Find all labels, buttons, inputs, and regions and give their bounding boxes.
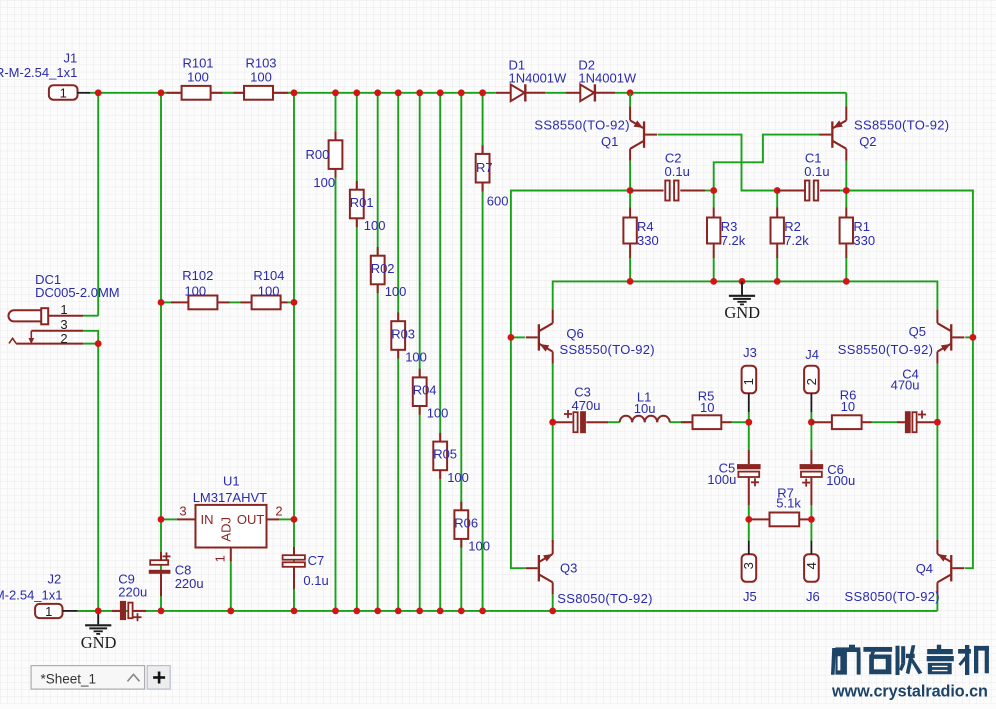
wire R102-R104	[230, 301, 241, 303]
svg-text:Q5: Q5	[909, 324, 926, 339]
node top bus x161	[158, 89, 165, 96]
svg-text:100: 100	[313, 175, 335, 190]
wire Q1 collector stub	[629, 161, 631, 191]
svg-text:3: 3	[741, 562, 756, 569]
node bottom bus x419	[416, 608, 423, 615]
node bottom bus x356	[353, 608, 360, 615]
node bottom bus x482	[479, 608, 486, 615]
wire mid GND bus	[553, 281, 938, 309]
node bottom bus x161	[158, 608, 165, 615]
svg-text:100: 100	[187, 70, 209, 85]
ground J2	[97, 611, 99, 625]
svg-text:4: 4	[804, 562, 819, 569]
resistor R01	[356, 181, 358, 190]
capacitor C5	[748, 450, 750, 464]
wire Q1 base to C1/R2 node	[658, 135, 777, 191]
connector J2	[35, 604, 62, 618]
node bottom bus x440	[437, 608, 444, 615]
node top bus x482	[479, 89, 486, 96]
svg-text:Q2: Q2	[859, 134, 876, 149]
svg-text:100: 100	[405, 350, 427, 365]
capacitor C7	[293, 547, 295, 555]
wire R5 left lead green	[681, 421, 693, 423]
svg-text:ADJ: ADJ	[218, 517, 233, 542]
wire U1 pin3 green	[161, 518, 177, 520]
DC1 pin3 lead	[31, 330, 83, 332]
wire DC1 pin2 net	[83, 343, 98, 345]
svg-text:GND: GND	[81, 633, 117, 652]
node top bus x419	[416, 89, 423, 96]
svg-text:330: 330	[853, 233, 875, 248]
node top bus x398	[395, 89, 402, 96]
resistor R3	[713, 208, 715, 218]
resistor R06	[460, 502, 462, 511]
wire Q6 collector to C3 node	[552, 364, 554, 423]
resistor R4	[629, 208, 631, 218]
node bottom bus x230	[227, 608, 234, 615]
connector J5	[742, 554, 757, 582]
svg-text:10: 10	[841, 399, 855, 414]
node D2 out	[627, 89, 634, 96]
wire Q1 emitter stub	[629, 93, 631, 107]
capacitor C1	[777, 190, 805, 192]
wire Q4 base net	[846, 191, 973, 569]
capacitor C3	[553, 421, 573, 423]
watermark char yin	[927, 645, 954, 675]
wire J2 stub green	[77, 610, 98, 612]
svg-text:www.crystalradio.cn: www.crystalradio.cn	[831, 683, 988, 701]
svg-text:220u: 220u	[175, 576, 204, 591]
node J4	[808, 419, 815, 426]
wire Q2 collector stub	[845, 161, 847, 191]
svg-text:470u: 470u	[891, 378, 920, 393]
svg-text:R05: R05	[433, 447, 457, 462]
resistor R103	[234, 92, 245, 94]
node Q1 collector	[627, 187, 634, 194]
svg-text:*Sheet_1: *Sheet_1	[41, 671, 97, 686]
wire R7 node down to J6	[810, 519, 812, 540]
wire R1 top stub	[845, 191, 847, 208]
wire DC1 sleeve to GND rail	[83, 331, 98, 611]
wire U1 adj green	[230, 561, 232, 611]
node bottom bus x377	[374, 608, 381, 615]
capacitor C2	[630, 190, 663, 192]
resistor R7b	[749, 518, 770, 520]
node J3	[745, 419, 752, 426]
resistor R1	[845, 208, 847, 218]
svg-text:1: 1	[45, 604, 52, 619]
op-amp U1 body	[196, 505, 267, 548]
sheet tab bar	[31, 666, 145, 690]
svg-text:600: 600	[487, 194, 509, 209]
resistor R102	[171, 301, 189, 303]
svg-text:J3: J3	[743, 345, 757, 360]
svg-text:100: 100	[258, 283, 280, 298]
wire rail x482	[482, 93, 484, 611]
inductor L1	[620, 416, 633, 422]
wire R6 to C4 green	[872, 421, 898, 423]
wire L1 to R5	[670, 421, 681, 423]
connector J1	[49, 85, 78, 100]
watermark char shou	[896, 645, 923, 675]
node J4-C6-R7	[808, 516, 815, 523]
wire R7 node down to J5	[748, 519, 750, 540]
svg-text:R03: R03	[391, 326, 415, 341]
wire rail x398	[397, 93, 399, 611]
svg-text:J1: J1	[64, 51, 78, 66]
connector DC1 barrel	[8, 310, 42, 321]
wire C5 to R7 node	[748, 505, 750, 519]
node J3-C5-R7	[745, 516, 752, 523]
connector J4	[804, 366, 819, 394]
svg-text:10: 10	[700, 400, 714, 415]
wire R3 top stub	[713, 191, 715, 208]
node U1 in	[158, 516, 165, 523]
resistor R04	[419, 369, 421, 378]
node C1-R2	[774, 187, 781, 194]
resistor R5	[681, 421, 693, 423]
wire J3 node down to C5	[748, 422, 750, 450]
resistor R7	[482, 145, 484, 154]
transistor Q1	[629, 106, 631, 120]
wire R103 out	[288, 92, 294, 94]
wire J1 stub green	[90, 92, 98, 94]
wire rail x377	[377, 93, 379, 611]
svg-text:1: 1	[213, 555, 228, 562]
wire R101-R103	[223, 92, 234, 94]
capacitor C6	[810, 450, 812, 464]
wire Q3 collector stub	[552, 422, 554, 542]
wire +V top bus	[98, 92, 496, 94]
svg-text:SS8550(TO-92): SS8550(TO-92)	[838, 342, 933, 357]
wire Q5 base stub	[965, 336, 973, 338]
svg-text:1N4001W: 1N4001W	[578, 70, 637, 85]
svg-text:GND: GND	[724, 303, 760, 322]
svg-text:1: 1	[741, 378, 756, 385]
watermark char shi	[863, 647, 892, 674]
node bottom bus x98	[95, 608, 102, 615]
DC1 pin2 lead	[16, 343, 83, 345]
wire J4 node down to C6	[810, 422, 812, 450]
svg-text:IN: IN	[201, 512, 214, 527]
svg-text:7.2k: 7.2k	[784, 233, 809, 248]
resistor R6	[811, 421, 832, 423]
svg-text:2: 2	[275, 504, 282, 519]
svg-text:R103: R103	[245, 56, 276, 71]
svg-text:J6: J6	[806, 589, 820, 604]
wire V1 rail (J1/DC1+)	[97, 93, 99, 316]
svg-text:100: 100	[468, 539, 490, 554]
svg-text:SS8550(TO-92): SS8550(TO-92)	[854, 118, 949, 133]
wire Q2 emitter stub	[845, 93, 847, 107]
wire rail x294	[293, 93, 295, 611]
svg-text:0.1u: 0.1u	[665, 164, 690, 179]
node C3 in	[549, 419, 556, 426]
svg-text:SS8050(TO-92): SS8050(TO-92)	[845, 589, 940, 604]
svg-text:100u: 100u	[707, 472, 736, 487]
wire C6 to R7 node	[810, 505, 812, 519]
svg-text:SS8050(TO-92): SS8050(TO-92)	[557, 591, 652, 606]
capacitor C4	[897, 421, 905, 423]
resistor R03	[397, 313, 399, 322]
resistor R02	[377, 247, 379, 256]
svg-text:5.1k: 5.1k	[776, 496, 801, 511]
wire R3 bottom stub	[713, 258, 715, 281]
wire Q4 collector to bottom bus	[936, 594, 938, 611]
wire Q6 base stub	[511, 336, 525, 338]
U1 pin3 lead	[177, 518, 196, 520]
svg-text:C7: C7	[308, 553, 325, 568]
wire Q3 base net	[511, 191, 630, 569]
node DC1 gnd	[95, 340, 102, 347]
node U1 out	[291, 516, 298, 523]
svg-text:M-2.54_1x1: M-2.54_1x1	[0, 587, 63, 602]
svg-text:220u: 220u	[118, 585, 147, 600]
node gnd bus x742	[739, 278, 746, 285]
wire Q5 collector to C4 node	[936, 364, 938, 423]
wire U1 pin2 green	[279, 518, 294, 520]
svg-text:U1: U1	[223, 473, 240, 488]
wire R102 row left	[161, 301, 171, 303]
svg-text:1N4001W: 1N4001W	[509, 70, 568, 85]
transistor Q6	[552, 309, 554, 323]
svg-text:0.1u: 0.1u	[303, 573, 328, 588]
svg-text:Q3: Q3	[560, 560, 577, 575]
svg-text:7.2k: 7.2k	[721, 233, 746, 248]
U1 pin2 lead	[267, 518, 280, 520]
svg-text:100: 100	[447, 470, 469, 485]
wire J4 pin stub green	[810, 412, 812, 422]
wire R2 bottom stub	[776, 258, 778, 281]
svg-text:R-M-2.54_1x1: R-M-2.54_1x1	[0, 65, 77, 80]
node top bus x377	[374, 89, 381, 96]
wire bottom GND bus	[77, 610, 937, 612]
wire Q2 base to C2/R3 node	[714, 135, 820, 191]
svg-text:100: 100	[385, 284, 407, 299]
svg-text:100u: 100u	[826, 473, 855, 488]
node gnd bus x846	[843, 278, 850, 285]
transistor Q5	[936, 309, 938, 323]
wire R2 top stub	[776, 191, 778, 208]
node top bus x440	[437, 89, 444, 96]
node bottom bus x552	[549, 608, 556, 615]
node gnd bus x713	[710, 278, 717, 285]
wire C1 right lead green	[840, 190, 846, 192]
svg-text:2: 2	[60, 331, 67, 346]
node bottom bus x294	[291, 608, 298, 615]
svg-text:SS8550(TO-92): SS8550(TO-92)	[534, 118, 629, 133]
svg-text:0.1u: 0.1u	[804, 164, 829, 179]
U1 pin1 lead	[230, 548, 232, 562]
svg-text:SS8550(TO-92): SS8550(TO-92)	[560, 342, 655, 357]
svg-text:R02: R02	[371, 261, 395, 276]
svg-text:J4: J4	[805, 347, 819, 362]
resistor R104	[241, 301, 252, 303]
wire R1 bottom stub	[845, 258, 847, 281]
node bottom bus x335	[332, 608, 339, 615]
DC1 pin1 lead	[48, 315, 83, 317]
svg-text:R102: R102	[182, 268, 213, 283]
transistor Q3	[552, 540, 554, 554]
wire rail x440	[439, 93, 441, 611]
svg-text:2: 2	[804, 378, 819, 385]
watermark char ji	[958, 645, 989, 675]
svg-text:R06: R06	[454, 515, 478, 530]
svg-text:Q4: Q4	[916, 561, 933, 576]
svg-text:1: 1	[60, 86, 67, 101]
wire rail x335	[335, 93, 337, 611]
node R104 right	[291, 299, 298, 306]
ground mid	[741, 281, 743, 295]
resistor R00	[335, 132, 337, 141]
node top bus x356	[353, 89, 360, 96]
node top bus x294	[291, 89, 298, 96]
node Q2 collector	[843, 187, 850, 194]
wire rail x356	[356, 93, 358, 611]
svg-text:R7: R7	[476, 160, 493, 175]
resistor R2	[776, 208, 778, 218]
connector J6	[804, 554, 819, 582]
diode D1	[496, 92, 511, 94]
node R102 left	[158, 299, 165, 306]
node bottom bus x461	[458, 608, 465, 615]
svg-text:Q1: Q1	[601, 134, 618, 149]
connector J3	[742, 366, 757, 394]
svg-text:3: 3	[179, 504, 186, 519]
wire rail x419	[419, 93, 421, 611]
watermark char kuang	[831, 645, 861, 675]
wire R104 out	[288, 301, 295, 303]
node U1 adj	[227, 608, 234, 615]
svg-text:470u: 470u	[572, 398, 601, 413]
wire Q4 emitter stub	[936, 422, 938, 542]
svg-text:1: 1	[60, 302, 67, 317]
transistor Q4	[936, 540, 938, 554]
node bottom bus x398	[395, 608, 402, 615]
wire R4 top stub	[629, 191, 631, 208]
svg-text:Q6: Q6	[566, 326, 583, 341]
wire R4 bottom stub	[629, 258, 631, 281]
svg-text:OUT: OUT	[237, 512, 265, 527]
wire rail x161	[160, 93, 162, 611]
svg-text:R101: R101	[182, 56, 213, 71]
svg-text:330: 330	[637, 233, 659, 248]
capacitor C9	[112, 610, 120, 612]
resistor R101	[166, 92, 181, 94]
node Q5 base	[970, 334, 977, 341]
node C4 out	[934, 419, 941, 426]
wire top bus D2 to Q1/Q2 node	[615, 92, 847, 94]
node Q6 base	[508, 334, 515, 341]
wire R5 to J3 node	[732, 421, 749, 423]
svg-text:J2: J2	[48, 572, 62, 587]
diode D2	[566, 92, 581, 94]
node gnd bus x630	[627, 278, 634, 285]
svg-text:100: 100	[364, 218, 386, 233]
node top bus x335	[332, 89, 339, 96]
svg-text:100: 100	[250, 70, 272, 85]
transistor Q2	[845, 106, 847, 120]
wire D1-D2	[545, 92, 565, 94]
node top bus x98	[95, 89, 102, 96]
svg-text:R104: R104	[253, 268, 284, 283]
svg-text:DC005-2.0MM: DC005-2.0MM	[35, 285, 120, 300]
wire C2 right lead green	[705, 190, 714, 192]
capacitor C8	[160, 552, 162, 560]
svg-text:10u: 10u	[634, 401, 656, 416]
wire J3 pin stub green	[748, 412, 750, 422]
node top bus x461	[458, 89, 465, 96]
wire rail x461	[460, 93, 462, 611]
wire Q3 emitter to bus	[552, 594, 554, 611]
svg-text:100: 100	[184, 283, 206, 298]
svg-text:100: 100	[427, 406, 449, 421]
svg-text:LM317AHVT: LM317AHVT	[193, 490, 267, 505]
svg-text:R00: R00	[306, 147, 330, 162]
node gnd bus x777	[774, 278, 781, 285]
resistor R05	[439, 433, 441, 442]
svg-text:R04: R04	[413, 383, 437, 398]
wire C3 to L1	[608, 421, 620, 423]
svg-text:J5: J5	[743, 589, 757, 604]
svg-text:R01: R01	[350, 195, 374, 210]
node C2-R3	[710, 187, 717, 194]
